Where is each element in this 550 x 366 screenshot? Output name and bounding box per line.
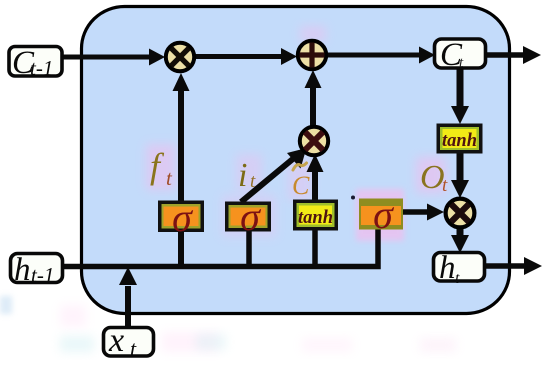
svg-text:x: x: [108, 322, 124, 359]
svg-text:t-1: t-1: [30, 56, 53, 80]
svg-text:t: t: [442, 175, 448, 196]
svg-text:t-1: t-1: [31, 263, 54, 287]
svg-text:O: O: [420, 159, 445, 196]
svg-text:h: h: [439, 250, 456, 286]
svg-text:i: i: [238, 157, 247, 194]
svg-text:t: t: [130, 336, 137, 361]
svg-text:t: t: [250, 171, 256, 192]
svg-text:tanh: tanh: [298, 208, 333, 228]
svg-text:tanh: tanh: [442, 131, 477, 151]
svg-text:C: C: [292, 171, 310, 200]
svg-text:t: t: [455, 270, 460, 287]
svg-text:σ: σ: [240, 194, 261, 239]
svg-text:σ: σ: [373, 192, 394, 237]
svg-text:σ: σ: [172, 195, 193, 240]
svg-text:h: h: [14, 252, 31, 288]
